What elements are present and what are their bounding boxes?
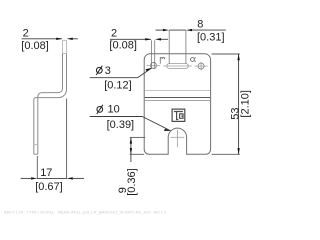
svg-text:3: 3 bbox=[105, 65, 111, 77]
front view lower bend tangent line bbox=[145, 100, 210, 102]
dimension 2 front: right extension line through hole bbox=[154, 40, 156, 69]
svg-text:BRKT.1.04 TYPE / MODEL MEA: BRKT.1.04 TYPE / MODEL MEAN WELL (US_LR_… bbox=[4, 210, 167, 215]
dimension 9 [0.36]: lower arrowhead pointing down bbox=[130, 148, 132, 154]
dimension 9 [0.36]: upper arrowhead pointing up bbox=[130, 137, 132, 143]
svg-text:10: 10 bbox=[108, 104, 120, 116]
dimension 17 [0.67]: right outside arrowhead and tail bbox=[67, 177, 73, 179]
svg-text:8: 8 bbox=[197, 19, 203, 31]
dimension 17 [0.67]: dimension line bbox=[37, 177, 66, 179]
side view joggle profile inner edge bbox=[38, 54, 63, 155]
dimension 8: left extension line bbox=[168, 31, 170, 64]
dimension 8 [0.31]: shoulder line under value bbox=[192, 29, 226, 31]
svg-text:2: 2 bbox=[23, 28, 29, 40]
small alpha mark right of slot bbox=[191, 58, 196, 62]
front view plate outline with bottom notch bbox=[144, 54, 210, 155]
dimension 2 [0.08] side view: right tail bbox=[73, 38, 78, 40]
dimension 17 [0.67]: left outside arrowhead and tail bbox=[31, 177, 37, 179]
label diameter 10 [0.39]: leader shoulder bbox=[90, 116, 143, 118]
side view bottom flange end cap bbox=[34, 153, 38, 155]
dimension 2 [0.08] side view: leader line bbox=[22, 38, 62, 40]
right hole horizontal centerline bbox=[195, 65, 208, 67]
stamped logo glyphs bbox=[174, 112, 183, 120]
svg-text:17: 17 bbox=[40, 167, 52, 179]
svg-text:[0.39]: [0.39] bbox=[107, 119, 135, 131]
dimension 8 [0.31]: right arrowhead bbox=[186, 29, 192, 31]
center slot (8mm) bbox=[167, 64, 189, 69]
label diameter 3 [0.12]: leader diagonal bbox=[138, 68, 152, 77]
dimension 9 [0.36]: bottom extension line bbox=[130, 153, 145, 155]
svg-text:[0.08]: [0.08] bbox=[21, 40, 49, 52]
dimension 2 [0.08] side view: left arrowhead bbox=[56, 38, 62, 40]
dimension 8 [0.31]: dimension line between extensions bbox=[169, 29, 186, 31]
label diameter 3 [0.12]: leader shoulder bbox=[90, 77, 138, 79]
label diameter 3 [0.12]: arrowhead at hole bbox=[146, 68, 152, 72]
dimension 2 [0.08] front: right arrowhead bbox=[155, 38, 161, 40]
dimension 2 [0.08] side view: right arrowhead bbox=[67, 38, 73, 40]
svg-text:[0.67]: [0.67] bbox=[35, 181, 63, 193]
dimension 53 [2.10]: bottom arrowhead bbox=[237, 148, 239, 154]
front view upper bend tangent line bbox=[145, 90, 210, 92]
side view top flange (vertical strip, right) bbox=[63, 40, 67, 53]
svg-text:2: 2 bbox=[111, 28, 117, 40]
dimension 2 front: left extension line through hole bbox=[151, 40, 153, 69]
left hole (diameter 3) bbox=[151, 63, 157, 69]
bottom notch horizontal centerline bbox=[170, 136, 184, 138]
svg-text:[2.10]: [2.10] bbox=[240, 90, 252, 118]
bottom notch vertical centerline bbox=[176, 130, 178, 147]
right hole vertical centerline bbox=[200, 62, 202, 71]
side view joggle profile outer edge bbox=[34, 54, 67, 155]
dimension 9 [0.36]: dimension line bbox=[130, 137, 132, 162]
dimension 2 [0.08] front: left arrowhead bbox=[145, 38, 151, 40]
dimension 53 [2.10]: bottom extension line bbox=[212, 153, 240, 155]
dimension 53 [2.10]: dimension line bbox=[238, 54, 240, 154]
svg-text:[0.31]: [0.31] bbox=[197, 32, 225, 44]
dimension 53 [2.10]: top extension line bbox=[212, 53, 240, 55]
label diameter 3 [0.12]: diameter symbol bbox=[96, 66, 102, 75]
right hole (diameter 3) bbox=[198, 63, 204, 69]
stamped logo square bbox=[172, 109, 185, 121]
dimension 53 [2.10]: top arrowhead bbox=[237, 54, 239, 60]
side view bottom flange edge tick bbox=[34, 144, 38, 146]
label diameter 10 [0.39]: arrowhead at notch bbox=[164, 129, 171, 131]
left hole horizontal centerline bbox=[147, 65, 161, 67]
label diameter 10 [0.39]: leader diagonal bbox=[142, 117, 170, 131]
label diameter 10 [0.39]: diameter symbol bbox=[97, 105, 103, 114]
dimension 9 [0.36]: top extension line at notch center bbox=[130, 136, 146, 138]
svg-text:[0.36]: [0.36] bbox=[126, 168, 138, 196]
dimension 2 [0.08] front: leader line bbox=[110, 38, 151, 40]
svg-text:[0.08]: [0.08] bbox=[109, 39, 137, 51]
svg-text:[0.12]: [0.12] bbox=[104, 80, 132, 92]
front view step edge line (dark) bbox=[145, 97, 210, 99]
dimension 2 [0.08] front: right tail bbox=[161, 38, 168, 40]
dimension 17 [0.67]: left extension line bbox=[36, 156, 38, 179]
dimension 8 [0.31]: dimension line left tail and arrowhead bbox=[156, 29, 164, 31]
slot horizontal centerline bbox=[163, 65, 192, 67]
dimension 17 [0.67]: right extension line bbox=[66, 99, 68, 179]
small tab mark left of slot bbox=[160, 58, 164, 64]
side view top flange edge tick bbox=[63, 53, 67, 55]
dimension 8: right extension line bbox=[185, 31, 187, 64]
